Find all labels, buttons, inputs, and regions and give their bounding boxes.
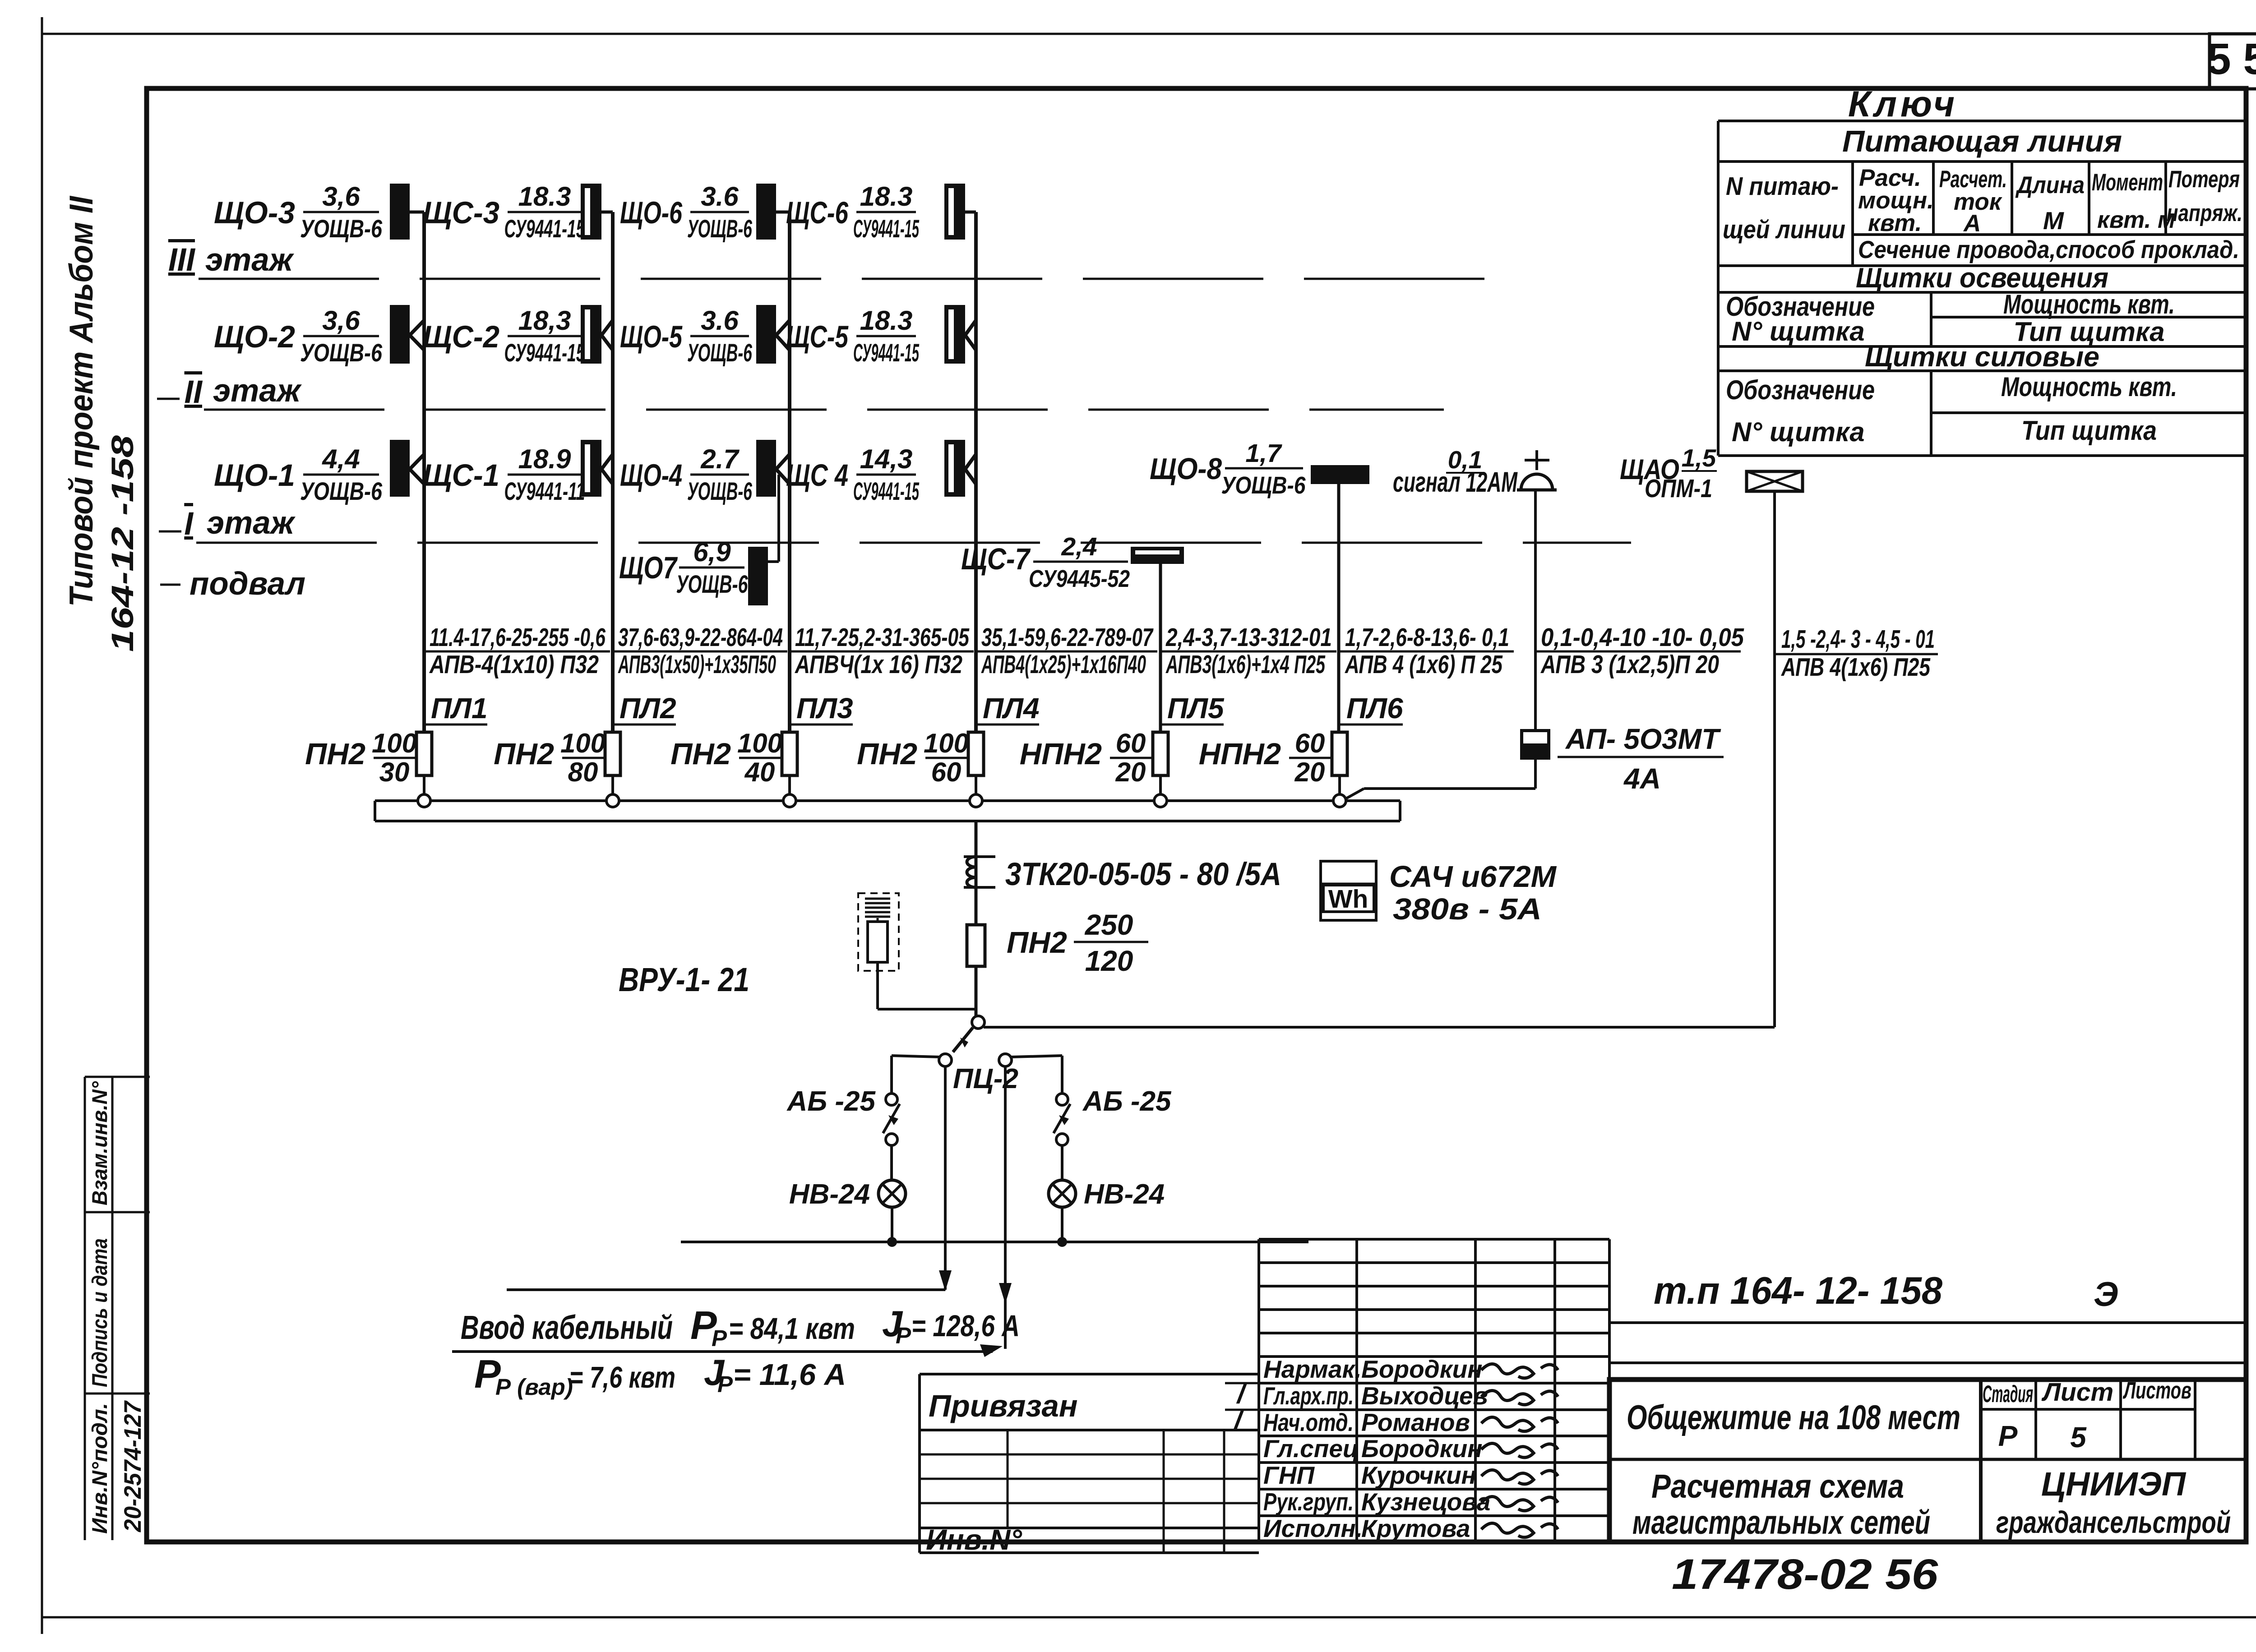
feeder label ПЛ2	[613, 623, 787, 724]
wire lamp to bottom bus (right)	[1061, 1207, 1063, 1242]
svg-text:щей линии: щей линии	[1723, 215, 1845, 244]
svg-text:граждансельстрой: граждансельстрой	[1996, 1505, 2231, 1540]
svg-text:НПН2: НПН2	[1199, 737, 1281, 771]
svg-text:ЩС 4: ЩС 4	[786, 458, 848, 493]
svg-text:Гл.спец: Гл.спец	[1263, 1435, 1359, 1463]
wire riser ПЛ5	[1159, 564, 1162, 732]
bus node	[970, 794, 982, 807]
svg-text:3,6: 3,6	[322, 181, 360, 212]
panel ЩО-2	[390, 305, 410, 364]
fuse ПН2 250/120	[967, 909, 1148, 977]
svg-text:Гл.арх.пр.: Гл.арх.пр.	[1263, 1382, 1354, 1410]
svg-text:СУ9441-15: СУ9441-15	[504, 214, 586, 243]
svg-text:Р: Р	[896, 1323, 911, 1348]
svg-text:УОЩВ-6: УОЩВ-6	[300, 214, 383, 243]
panel ЩО-6 label	[620, 181, 753, 243]
svg-text:Бородкин: Бородкин	[1361, 1435, 1482, 1463]
svg-text:80: 80	[568, 757, 598, 787]
svg-text:37,6-63,9-22-864-04: 37,6-63,9-22-864-04	[618, 623, 783, 652]
svg-text:4,4: 4,4	[322, 444, 360, 474]
wire to lamp (right)	[1061, 1145, 1063, 1180]
svg-text:Выходцев: Выходцев	[1361, 1382, 1488, 1410]
fuse ПН2 100/80 on riser	[494, 728, 620, 787]
svg-text:Листов: Листов	[2122, 1377, 2191, 1404]
svg-text:1,7: 1,7	[1245, 439, 1282, 468]
svg-text:Э: Э	[2094, 1275, 2118, 1314]
panel ЩС-1	[581, 440, 601, 497]
wire fuse to bus	[1338, 775, 1341, 801]
panel ЩО-2 label	[214, 305, 383, 367]
Привязан table	[920, 1374, 1259, 1556]
panel ЩО-7	[748, 547, 768, 605]
svg-text:II: II	[185, 374, 203, 410]
svg-text:УОЩВ-6: УОЩВ-6	[1221, 472, 1306, 499]
tap from riser to ЩС-1	[601, 454, 613, 484]
svg-text:квт.: квт.	[1868, 210, 1922, 236]
svg-text:Мощность квт.: Мощность квт.	[2001, 372, 2177, 402]
svg-text:напряж.: напряж.	[2167, 200, 2242, 226]
breaker АБ-25 (right)	[1054, 1086, 1172, 1145]
feeder label ПЛ1	[424, 623, 610, 724]
svg-text:Бородкин: Бородкин	[1361, 1355, 1482, 1383]
svg-text:60: 60	[1116, 728, 1146, 758]
feeder label ПЛ6	[1340, 623, 1514, 724]
fuse ПН2 100/30 on riser	[305, 728, 432, 787]
sidebar table	[85, 1077, 150, 1540]
svg-text:ЩО-1: ЩО-1	[214, 458, 295, 493]
wire to lamp (left)	[890, 1145, 893, 1180]
svg-text:Момент: Момент	[2092, 169, 2163, 196]
panel ЩАО (box with X)	[1747, 471, 1803, 491]
fuse ПН2 100/40 on riser	[670, 728, 797, 787]
svg-text:СУ9441-15: СУ9441-15	[853, 214, 919, 243]
surge arrester with fuse in dashed box	[858, 893, 976, 1009]
svg-text:Сечение провода,способ проклад: Сечение провода,способ проклад.	[1858, 235, 2239, 263]
svg-text:5 5: 5 5	[2207, 34, 2256, 83]
svg-text:= 128,6 А: = 128,6 А	[911, 1309, 1020, 1343]
svg-text:= 84,1 квт: = 84,1 квт	[729, 1312, 855, 1346]
svg-text:ГНП: ГНП	[1263, 1461, 1315, 1489]
svg-text:100: 100	[737, 728, 782, 758]
svg-text:I: I	[184, 506, 194, 542]
svg-text:АПВ 3 (1x2,5)П 20: АПВ 3 (1x2,5)П 20	[1540, 650, 1719, 679]
title block right part	[1609, 1269, 2246, 1542]
tap from riser to ЩО-4	[776, 454, 790, 484]
svg-text:Исполн.: Исполн.	[1263, 1514, 1363, 1542]
svg-text:17478-02 56: 17478-02 56	[1672, 1550, 1938, 1598]
wire fuse to bus	[1159, 775, 1162, 801]
svg-text:СУ9441-15: СУ9441-15	[853, 477, 919, 505]
svg-text:АПВЧ(1x 16) П32: АПВЧ(1x 16) П32	[794, 650, 962, 679]
panel ЩС-3	[581, 184, 601, 240]
breaker АБ-25 (left)	[786, 1086, 900, 1145]
feeder label ЩАО line	[1775, 625, 1938, 682]
svg-text:18.3: 18.3	[518, 181, 571, 212]
svg-text:Рук.груп.: Рук.груп.	[1263, 1488, 1354, 1516]
svg-text:АБ -25: АБ -25	[786, 1086, 876, 1117]
panel ЩО-7 label	[619, 537, 748, 598]
panel ЩО-6	[756, 184, 776, 240]
wire riser ПЛ6	[1337, 484, 1341, 732]
svg-text:НВ-24: НВ-24	[789, 1179, 870, 1210]
panel ЩС-2 label	[423, 305, 585, 367]
lamp НВ-24 (right)	[1049, 1179, 1165, 1210]
panel ЩС 4 label	[786, 444, 919, 505]
wire bell to breaker АП-50	[1534, 491, 1537, 729]
svg-text:подвал: подвал	[190, 566, 305, 602]
tap from riser to ЩО-2	[410, 320, 424, 350]
wire fuse to bus	[975, 775, 977, 801]
svg-text:250: 250	[1085, 909, 1133, 941]
svg-text:Нач.отд.: Нач.отд.	[1263, 1408, 1354, 1436]
svg-text:18.9: 18.9	[518, 444, 571, 474]
svg-text:Р: Р	[712, 1325, 727, 1351]
svg-text:Р: Р	[717, 1371, 733, 1397]
wire lamp to bottom bus (left)	[891, 1207, 893, 1242]
wire ПЦ-2 left branch	[892, 1056, 940, 1093]
panel ЩС-7 label	[961, 532, 1130, 592]
wire riser ЩАО feeder	[1773, 491, 1776, 1027]
svg-text:60: 60	[931, 757, 962, 787]
signal bell	[1517, 450, 1557, 490]
electricity meter САЧ и672М Wh	[1321, 860, 1557, 926]
wire riser ПЛ2	[611, 212, 615, 732]
feeder label ПЛ5	[1160, 623, 1336, 724]
svg-text:30: 30	[379, 757, 410, 787]
svg-text:2,4-3,7-13-312-01: 2,4-3,7-13-312-01	[1165, 623, 1332, 652]
svg-text:ПН2: ПН2	[670, 737, 731, 771]
svg-text:ПН2: ПН2	[1007, 926, 1067, 960]
svg-text:Расчетная схема: Расчетная схема	[1651, 1467, 1904, 1505]
bus node	[783, 794, 796, 807]
svg-text:Р: Р	[1998, 1420, 2018, 1452]
svg-text:= 11,6 А: = 11,6 А	[733, 1358, 846, 1392]
svg-text:= 7,6 квт: = 7,6 квт	[569, 1361, 675, 1394]
svg-text:этаж: этаж	[207, 505, 296, 541]
bottom horizontal wire	[681, 1237, 1308, 1247]
wire breaker АП-50 to bus node	[1340, 760, 1535, 802]
tap from riser to ЩО-5	[776, 320, 790, 350]
wire branch to ЩО-7	[768, 475, 779, 562]
svg-text:5: 5	[2070, 1421, 2087, 1454]
bus node	[1154, 794, 1167, 807]
svg-text:Ввод кабельный: Ввод кабельный	[461, 1309, 673, 1346]
svg-text:2,4: 2,4	[1061, 532, 1097, 561]
svg-text:11,7-25,2-31-365-05: 11,7-25,2-31-365-05	[795, 623, 970, 652]
fuse НПН2 60/20 on riser	[1020, 728, 1168, 787]
svg-text:ЩО-6: ЩО-6	[620, 195, 682, 230]
svg-text:Wh: Wh	[1328, 885, 1368, 914]
svg-text:ПН2: ПН2	[857, 737, 917, 771]
page number box 55	[2207, 34, 2256, 89]
svg-text:3.6: 3.6	[701, 181, 739, 212]
svg-text:Лист: Лист	[2041, 1378, 2113, 1407]
svg-text:СУ9441-15: СУ9441-15	[853, 338, 919, 367]
panel ЩС-7 (horizontal)	[1131, 547, 1184, 564]
svg-text:6,9: 6,9	[693, 537, 731, 567]
svg-text:60: 60	[1295, 728, 1325, 758]
svg-text:Длина: Длина	[2015, 172, 2085, 198]
key table Ключ	[1718, 84, 2246, 456]
svg-text:N° щитка: N° щитка	[1732, 316, 1865, 346]
svg-text:АПВ 4 (1x6) П 25: АПВ 4 (1x6) П 25	[1344, 650, 1503, 679]
svg-text:АП- 5О3МТ: АП- 5О3МТ	[1565, 723, 1721, 755]
label Ввод кабельный	[452, 1303, 1020, 1357]
svg-text:18,3: 18,3	[518, 305, 571, 336]
lamp НВ-24 (left)	[789, 1179, 906, 1210]
svg-text:40: 40	[744, 757, 775, 787]
panel ЩАО label	[1620, 444, 1717, 503]
svg-text:ПЛ3: ПЛ3	[796, 692, 853, 724]
panel ЩО-5 label	[620, 305, 753, 367]
svg-text:ЩО-8: ЩО-8	[1150, 452, 1222, 486]
svg-text:Романов: Романов	[1361, 1408, 1470, 1436]
svg-text:Р (вар): Р (вар)	[495, 1374, 573, 1400]
signatures	[1233, 1364, 1558, 1537]
svg-text:3.6: 3.6	[701, 305, 739, 336]
svg-text:1,5 -2,4- 3 - 4,5 - 01: 1,5 -2,4- 3 - 4,5 - 01	[1781, 625, 1935, 654]
svg-text:ПЛ4: ПЛ4	[983, 692, 1040, 724]
svg-text:ЩС-7: ЩС-7	[961, 542, 1031, 576]
floor label подвал	[160, 566, 305, 602]
svg-text:ЩО-2: ЩО-2	[214, 319, 295, 354]
svg-text:ВРУ-1- 21: ВРУ-1- 21	[619, 961, 749, 998]
floor line III этаж	[168, 242, 1484, 279]
svg-text:3ТК20-05-05 - 80 /5А: 3ТК20-05-05 - 80 /5А	[1005, 857, 1281, 892]
panel ЩО-4 label	[620, 444, 753, 505]
label Рр(вар)	[474, 1352, 846, 1400]
floor line II этаж	[157, 373, 1444, 410]
svg-text:20-2574-127: 20-2574-127	[120, 1400, 146, 1532]
svg-text:САЧ и672М: САЧ и672М	[1389, 860, 1557, 894]
svg-text:18.3: 18.3	[860, 181, 913, 212]
svg-text:Инв.N°подл.: Инв.N°подл.	[88, 1403, 111, 1534]
svg-text:ЩО-3: ЩО-3	[214, 195, 295, 230]
svg-text:ПЦ-2: ПЦ-2	[953, 1063, 1018, 1094]
svg-text:УОЩВ-6: УОЩВ-6	[687, 338, 753, 367]
bus node	[1333, 794, 1346, 807]
svg-text:18.3: 18.3	[860, 305, 913, 336]
svg-text:М: М	[2043, 207, 2064, 235]
svg-text:Типовой проект Альбом II: Типовой проект Альбом II	[63, 195, 100, 607]
svg-text:14,3: 14,3	[860, 444, 913, 474]
svg-text:Щитки силовые: Щитки силовые	[1865, 341, 2099, 373]
svg-text:ПЛ5: ПЛ5	[1167, 692, 1225, 724]
svg-text:1,5: 1,5	[1682, 444, 1717, 472]
wire ПЦ-2 right branch	[1012, 1056, 1062, 1093]
svg-text:ЩС-2: ЩС-2	[423, 319, 499, 354]
svg-text:ЩС-6: ЩС-6	[786, 195, 848, 230]
panel ЩС-2	[581, 305, 601, 364]
panel ЩС-3 label	[423, 181, 585, 243]
svg-text:АПВ 4(1x6) П25: АПВ 4(1x6) П25	[1780, 653, 1931, 682]
panel ЩС-5	[944, 305, 965, 364]
wire top connection ЩС-3 to riser	[600, 211, 613, 214]
svg-text:Курочкин: Курочкин	[1361, 1461, 1476, 1489]
svg-text:А: А	[1963, 210, 1981, 237]
svg-text:СУ9441-11: СУ9441-11	[504, 477, 585, 505]
svg-text:11.4-17,6-25-255 -0,6: 11.4-17,6-25-255 -0,6	[430, 623, 606, 652]
wire riser ПЛ4	[974, 212, 978, 732]
svg-text:квт. м: квт. м	[2097, 207, 2175, 233]
svg-text:100: 100	[560, 728, 606, 758]
panel ЩС-6 label	[786, 181, 919, 243]
svg-text:N питаю-: N питаю-	[1726, 172, 1839, 201]
panel ЩО-5	[756, 305, 776, 364]
svg-text:3,6: 3,6	[322, 305, 360, 336]
svg-text:ЩО7: ЩО7	[619, 550, 678, 585]
fuse НПН2 60/20 on riser	[1199, 728, 1347, 787]
svg-text:Крутова: Крутова	[1361, 1514, 1470, 1542]
svg-text:380в - 5А: 380в - 5А	[1393, 892, 1542, 926]
svg-text:Привязан: Привязан	[929, 1389, 1078, 1423]
svg-text:Ключ: Ключ	[1848, 84, 1958, 125]
wire switch to ЩАО riser	[984, 1026, 1775, 1029]
signal bell label 0,1 сигнал 12АМ	[1393, 446, 1518, 498]
svg-text:НПН2: НПН2	[1020, 737, 1102, 771]
wire top connection ЩС-6 to riser	[963, 211, 976, 214]
svg-text:20: 20	[1294, 757, 1325, 787]
wire top connection ЩО-3 to riser	[408, 211, 424, 214]
wire top connection ЩО-6 to riser	[774, 211, 790, 214]
svg-text:этаж: этаж	[205, 242, 295, 278]
panel ЩО-8 label	[1150, 439, 1306, 499]
svg-text:2.7: 2.7	[700, 444, 740, 474]
svg-text:Обозначение: Обозначение	[1726, 375, 1875, 405]
tap from riser to ЩС 4	[965, 454, 976, 484]
feeder label ПЛ4	[976, 623, 1157, 724]
svg-text:АПВ3(1x6)+1x4 П25: АПВ3(1x6)+1x4 П25	[1165, 650, 1326, 679]
svg-text:100: 100	[924, 728, 969, 758]
svg-text:ЩО-5: ЩО-5	[620, 319, 683, 354]
svg-text:УОЩВ-6: УОЩВ-6	[676, 570, 749, 598]
svg-text:УОЩВ-6: УОЩВ-6	[687, 214, 753, 243]
svg-text:ОПМ-1: ОПМ-1	[1645, 474, 1712, 503]
panel ЩС 4	[944, 440, 965, 497]
svg-text:ПН2: ПН2	[494, 737, 554, 771]
tap from riser to ЩС-2	[601, 320, 613, 350]
switch blade	[953, 1028, 973, 1052]
wire riser ПЛ1	[422, 212, 426, 732]
svg-text:100: 100	[372, 728, 417, 758]
panel ЩО-1 label	[214, 444, 383, 505]
svg-text:Кузнецова: Кузнецова	[1361, 1488, 1490, 1516]
svg-text:УОЩВ-6: УОЩВ-6	[300, 338, 383, 367]
svg-text:ЦНИИЭП: ЦНИИЭП	[2041, 1465, 2187, 1503]
svg-text:Взам.инв.N°: Взам.инв.N°	[88, 1081, 111, 1205]
svg-text:ПЛ6: ПЛ6	[1346, 692, 1403, 724]
svg-text:164-12 -158: 164-12 -158	[105, 435, 140, 652]
current transformer 3ТК20-05-05-80/5А	[964, 857, 1281, 892]
bus bar ВРУ	[375, 801, 1400, 821]
svg-text:АПВ-4(1x10) П32: АПВ-4(1x10) П32	[429, 650, 599, 679]
svg-text:АПВ4(1x25)+1x16П40: АПВ4(1x25)+1x16П40	[981, 650, 1146, 679]
bus node	[606, 794, 619, 807]
feeder label ПЛ3	[790, 623, 974, 724]
svg-text:Мощность квт.: Мощность квт.	[2003, 289, 2175, 319]
svg-text:Тип щитка: Тип щитка	[2021, 415, 2157, 446]
wire fuse to bus	[788, 775, 791, 801]
svg-text:Общежитие на 108 мест: Общежитие на 108 мест	[1627, 1398, 1960, 1437]
svg-text:4А: 4А	[1623, 762, 1661, 795]
svg-text:35,1-59,6-22-789-07: 35,1-59,6-22-789-07	[981, 623, 1154, 652]
tap from riser to ЩО-1	[410, 454, 424, 484]
svg-text:120: 120	[1085, 945, 1133, 977]
svg-text:ПЛ1: ПЛ1	[431, 692, 488, 724]
svg-text:0,1-0,4-10 -10- 0,05: 0,1-0,4-10 -10- 0,05	[1541, 623, 1744, 652]
svg-text:ЩС-1: ЩС-1	[423, 458, 499, 493]
svg-text:Стадия: Стадия	[1983, 1381, 2033, 1407]
panel ЩС-5 label	[786, 305, 919, 367]
wire fuse to bus	[611, 775, 614, 801]
wire main riser below bus	[975, 821, 978, 1016]
svg-text:III: III	[168, 242, 195, 278]
svg-text:Питающая линия: Питающая линия	[1842, 125, 2122, 158]
svg-text:ЩС-3: ЩС-3	[423, 195, 499, 230]
fuse ПН2 100/60 on riser	[857, 728, 984, 787]
tap from riser to ЩС-5	[965, 320, 976, 350]
svg-text:Потеря: Потеря	[2168, 166, 2240, 193]
panel ЩО-8 (horizontal)	[1311, 465, 1369, 484]
svg-text:этаж: этаж	[213, 373, 302, 409]
changeover switch ПЦ-2	[939, 1054, 1018, 1094]
svg-text:АБ -25: АБ -25	[1082, 1086, 1172, 1117]
svg-text:1,7-2,6-8-13,6- 0,1: 1,7-2,6-8-13,6- 0,1	[1345, 623, 1509, 652]
svg-text:ЩО-4: ЩО-4	[620, 458, 682, 493]
floor line I этаж	[159, 505, 1631, 543]
title block names	[1263, 1355, 1490, 1542]
panel ЩС-6	[944, 184, 965, 240]
svg-text:Инв.N°: Инв.N°	[926, 1523, 1022, 1556]
svg-text:Нармак.: Нармак.	[1263, 1355, 1362, 1383]
panel ЩО-3	[390, 184, 410, 240]
svg-text:УОЩВ-6: УОЩВ-6	[687, 477, 753, 505]
svg-text:т.п 164- 12- 158: т.п 164- 12- 158	[1654, 1269, 1943, 1312]
incoming cable (left) with arrow	[507, 1066, 952, 1291]
bus node	[418, 794, 430, 807]
breaker АП-50 3МТ 4А	[1520, 723, 1724, 795]
svg-text:ЩС-5: ЩС-5	[786, 319, 849, 354]
svg-text:N° щитка: N° щитка	[1732, 417, 1865, 447]
svg-text:СУ9445-52: СУ9445-52	[1029, 565, 1130, 592]
svg-text:ПН2: ПН2	[305, 737, 365, 771]
switch node	[972, 1016, 985, 1029]
panel ЩО-3 label	[214, 181, 383, 243]
incoming cable (right) with arrow	[999, 1066, 1012, 1349]
svg-text:УОЩВ-6: УОЩВ-6	[300, 477, 383, 505]
svg-text:ПЛ2: ПЛ2	[619, 692, 676, 724]
title block grid	[1225, 1239, 1609, 1542]
svg-text:Подпись и дата: Подпись и дата	[88, 1238, 111, 1387]
wire riser ПЛ3	[788, 212, 791, 732]
panel ЩО-1	[390, 440, 410, 497]
feeder label АП-50 line	[1535, 623, 1744, 679]
svg-text:сигнал 12АМ: сигнал 12АМ	[1393, 466, 1518, 498]
panel ЩО-4	[756, 440, 776, 497]
panel ЩС-1 label	[423, 444, 585, 505]
svg-text:магистральных сетей: магистральных сетей	[1632, 1504, 1930, 1541]
wire fuse to bus	[423, 775, 425, 801]
svg-text:НВ-24: НВ-24	[1084, 1179, 1165, 1210]
svg-text:АПВ3(1x50)+1x35П50: АПВ3(1x50)+1x35П50	[618, 650, 776, 679]
svg-text:20: 20	[1115, 757, 1146, 787]
svg-text:СУ9441-15: СУ9441-15	[504, 338, 586, 367]
